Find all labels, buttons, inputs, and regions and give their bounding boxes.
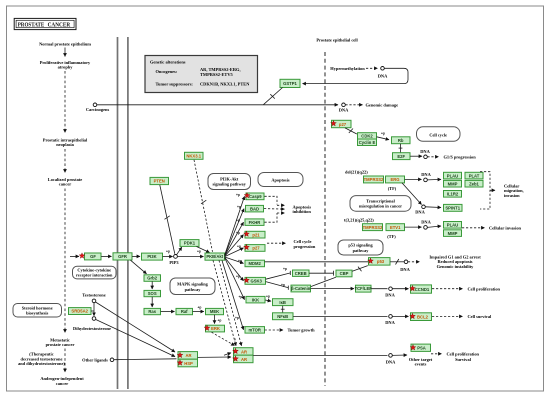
gene Rb [392,137,411,144]
svg-text:receptor interaction: receptor interaction [76,273,113,278]
wire dashed down [64,71,66,133]
svg-text:NKX3.1: NKX3.1 [186,153,201,158]
wire Raf to MEK [193,311,204,313]
gene FKHR [245,219,264,226]
wire DNA to PSA [392,354,407,356]
svg-text:BAD: BAD [250,206,259,211]
svg-text:AR: AR [241,349,247,354]
svg-text:Tumor suppressors:: Tumor suppressors: [156,81,194,86]
pathway box cell cycle [417,127,461,142]
svg-text:HSP: HSP [184,361,193,366]
gene AR b [233,355,253,363]
pathway box transcriptional misregulation [350,196,411,212]
svg-text:AR: AR [241,357,247,362]
wire dashed to DNA [366,67,378,69]
svg-text:Dihydrotestosterone: Dihydrotestosterone [73,326,111,331]
svg-text:+p: +p [237,245,241,249]
svg-text:pathway: pathway [185,287,202,292]
gene Cyclin E [358,139,377,146]
gene bCatenin [291,285,311,292]
wire p21/p27 dashed to cell cycle progression [267,242,286,244]
wire GSTP1 to carcinogen line with cross [264,88,283,105]
svg-text:t(3,21)(q25,q22): t(3,21)(q25,q22) [344,218,374,223]
svg-text:cancer: cancer [59,182,71,187]
svg-text:del(21)(q22): del(21)(q22) [345,169,368,174]
node DNA circle [342,103,346,107]
wire p27 to CDK2 with cross [345,128,357,134]
wire ETV1 to DNA [405,226,422,228]
node ligand circle [110,358,114,362]
svg-text:SPINT1: SPINT1 [445,206,460,211]
svg-text:Transcriptional: Transcriptional [366,198,395,203]
gene CBP [336,270,352,277]
gene mTOR [245,327,265,334]
gene CCND1 [410,285,432,293]
svg-text:+p: +p [166,250,170,254]
pathway box PI3K-Akt signaling pathway [208,174,251,190]
wire CREB to CBP tbar [309,272,333,274]
wire dashed to cellular invasion [462,227,485,229]
svg-text:CBP: CBP [340,271,349,276]
svg-text:MAPK signaling: MAPK signaling [177,281,209,286]
gene PLAT [465,172,483,179]
wire AKT to MDM2 [225,257,244,263]
svg-text:MMP: MMP [448,231,458,236]
wire CBP to p53 with cross [352,266,368,272]
wire CDK2 to Rb [377,137,389,140]
svg-text:Tumor growth: Tumor growth [288,328,316,333]
wire bracket arrow [490,189,495,191]
svg-text:Grb2: Grb2 [147,276,157,281]
svg-text:+p: +p [236,219,240,223]
gene p27 [244,244,265,251]
gene p53 [368,258,390,266]
svg-text:DNA: DNA [400,267,410,272]
cell membrane double line [118,37,128,389]
wire PTEN to PIP3 with cross [160,185,175,254]
gene PLAU [444,172,462,179]
wire AKT to p21 [225,235,244,257]
svg-text:Oncogenes:: Oncogenes: [156,69,178,74]
gene BCL2 [410,313,432,321]
wire DNA to SPINT1 [425,206,441,209]
svg-text:ERK: ERK [211,326,220,331]
wire ERK dashed to ARAR [212,332,235,345]
svg-text:Cyclin E: Cyclin E [359,140,376,145]
wire BCL2 dashed to cell survival [432,315,463,317]
gene NKX3.1 [185,152,204,159]
svg-text:IL1R2: IL1R2 [447,192,459,197]
svg-text:+p: +p [239,295,243,299]
node DNA circle [389,354,393,358]
svg-text:PKB/Akt: PKB/Akt [206,254,223,259]
wire AKT to FKHR [225,222,244,256]
svg-text:Prostate epithelial cell: Prostate epithelial cell [316,38,358,43]
svg-text:+p: +p [281,283,285,287]
svg-text:G1/S progression: G1/S progression [444,154,477,159]
wire arrow down [64,48,66,57]
gene Grb2 [144,275,161,282]
wire dashed to genomic damage [345,104,362,106]
wire ERG diagonal to SPINT1 DNA [402,183,422,205]
node DNA circle [389,315,393,319]
svg-text:PLAU: PLAU [447,173,458,178]
svg-text:PLAT: PLAT [469,173,480,178]
nuclear membrane dashed [324,52,326,386]
wire mTOR dashed to tumor growth [265,329,283,331]
svg-text:GFR: GFR [118,254,127,259]
svg-text:p21: p21 [252,232,260,237]
wire PI3K to PIP3 [163,256,173,258]
svg-text:TCF/LEF: TCF/LEF [355,286,373,291]
node DNA circle [424,226,428,230]
gene HSP [177,359,197,367]
svg-text:+p: +p [236,231,240,235]
wire DNA to BCL2 [392,315,408,317]
svg-text:DNA: DNA [385,320,395,325]
wire AKT to Casp9 [225,196,245,255]
svg-text:BCL2: BCL2 [417,314,429,319]
svg-text:(TF): (TF) [387,234,396,239]
svg-text:PROSTATE: PROSTATE [18,23,45,29]
gene IKK [246,296,265,303]
wire GFR to Grb2 [131,260,147,274]
gene E2F [393,153,411,160]
svg-text:CREB: CREB [295,271,307,276]
svg-text:CDKN1B, NKX3.1, PTEN: CDKN1B, NKX3.1, PTEN [200,81,250,86]
gene GFR [113,253,132,260]
svg-text:+p: +p [283,267,287,271]
gene BAD [246,205,264,212]
svg-text:+p: +p [266,295,270,299]
svg-text:Cell proliferation: Cell proliferation [447,352,480,357]
node DNA circle [381,67,385,71]
wire T to AR [96,302,176,352]
svg-text:p53 signaling: p53 signaling [348,243,373,248]
svg-text:TMPRSS2-ETV5: TMPRSS2-ETV5 [200,72,233,77]
svg-text:neoplasia: neoplasia [56,142,74,147]
svg-text:PTEN: PTEN [154,179,165,184]
gene AR c1 [177,352,197,360]
gene SPINT1 [444,204,463,211]
pathway box MAPK signaling pathway [170,278,215,295]
gene TMPRSS2 b [363,224,384,231]
svg-text:+p: +p [236,275,240,279]
svg-text:Carcinogens: Carcinogens [86,107,110,112]
svg-text:GSK3: GSK3 [250,279,262,284]
gene ERK [204,325,224,332]
wire PIP3 to PDK1 [177,247,182,255]
svg-text:NFκB: NFκB [277,314,288,319]
wire dashed down [64,349,66,373]
svg-text:DNA: DNA [421,220,431,225]
svg-text:Survival: Survival [455,357,472,362]
gene CREB [293,270,310,276]
svg-text:MEK: MEK [210,309,219,314]
svg-text:DNA: DNA [421,172,431,177]
gene Raf [176,308,193,314]
svg-text:atrophy: atrophy [58,65,74,70]
svg-text:p27: p27 [252,246,260,251]
gene IkB [273,299,294,306]
svg-text:events: events [415,362,427,367]
wire PSA dashed to proliferation [431,353,442,355]
svg-text:ETV1: ETV1 [390,225,401,230]
wire Casp9 dashed bracket [265,196,278,204]
svg-text:Apoptosis: Apoptosis [271,178,289,183]
svg-text:PIP3: PIP3 [169,260,179,265]
wire PIP3 to AKT [178,256,204,258]
node T circle [92,299,96,303]
pathway box apoptosis [258,173,303,187]
wire DNA to PLAU [427,178,441,181]
svg-text:TMPRSS2: TMPRSS2 [364,177,384,182]
wire Casp9 arrow [277,204,285,206]
svg-text:cancer: cancer [56,381,68,386]
gene CDK2 [358,133,377,139]
gene GF [79,253,101,260]
gene p27 nuclear [331,120,351,127]
svg-text:+p: +p [235,316,239,320]
svg-text:Other ligands: Other ligands [82,358,108,363]
wire AKT dashed to AR b [219,260,242,345]
svg-text:progression: progression [294,244,316,249]
wire E2F to DNA [410,155,422,157]
svg-text:p53: p53 [377,259,385,264]
svg-text:DNA: DNA [378,73,388,78]
svg-text:GF: GF [90,254,96,259]
wire PDK1 to AKT [197,247,210,253]
svg-text:GSTP1: GSTP1 [283,81,297,86]
gene PLAU b [444,222,462,229]
wire input arrow to GF [70,255,79,257]
wire Grb2 to SOS [151,281,153,289]
svg-text:Genetic alterations: Genetic alterations [150,60,186,65]
wire bCatenin to TCF [311,288,354,290]
wire FKHR arrow [277,212,285,214]
svg-text:prostate cancer: prostate cancer [46,342,75,347]
gene PDK1 [180,240,199,247]
wire T to DHT [93,303,95,316]
node DNA circle [424,178,428,182]
node DNA circle [404,260,408,264]
wire bracket migration [480,172,490,209]
node DNA circle [422,205,426,209]
wire ARHSP to ARAR [198,356,231,358]
wire dashed to G1/S [427,156,438,158]
svg-text:p27: p27 [339,122,347,127]
wire AKT to p27 [225,248,244,257]
wire DHT to AR [96,320,175,357]
wire IkB NFkB plus [282,306,284,313]
wire p53 to DNA with cross [390,261,404,263]
svg-text:SOS: SOS [148,291,157,296]
node DNA circle [389,287,393,291]
svg-text:+p: +p [237,205,241,209]
svg-text:invasion: invasion [504,193,520,198]
wire ligand to AR [114,358,177,361]
svg-text:(TF): (TF) [388,186,397,191]
svg-text:MMP: MMP [448,181,458,186]
gene SRD5A2 [69,308,92,315]
svg-text:Hypermethylation: Hypermethylation [330,66,365,71]
wire ERG to DNA [405,178,422,180]
wire AKT to IKK [225,258,245,300]
gene MMP b [444,230,462,237]
wire Rb E2F plus [400,144,402,153]
gene Zeb1 [465,180,483,187]
pathway box p53 signaling pathway [338,240,383,255]
svg-text:FKHR: FKHR [249,220,261,225]
svg-text:TMPRSS2: TMPRSS2 [363,225,383,230]
wire SRD5A2 tick [91,310,94,312]
wire MEK to ERK [214,315,216,324]
svg-text:DNA: DNA [385,293,395,298]
gene TCF/LEF [355,285,373,292]
svg-text:misregulation in cancer: misregulation in cancer [359,204,402,209]
wire GFR to PI3K [132,255,140,257]
gene PI3K [142,253,163,260]
svg-text:β-Catenin: β-Catenin [291,286,311,291]
svg-text:DNA: DNA [420,149,430,154]
svg-text:IκB: IκB [279,300,286,305]
wire IKK to IkB [265,300,271,301]
wire Ras to Raf [161,311,175,313]
svg-text:DNA: DNA [386,359,396,364]
gene AKT [205,253,225,260]
svg-text:CANCER: CANCER [48,23,71,29]
wire NKX3.1 dashed to AKT with cross [194,160,213,252]
svg-text:SRD5A2: SRD5A2 [71,309,88,314]
svg-text:Genomic instability: Genomic instability [437,264,475,269]
gene TMPRSS2 [364,176,385,183]
wire FKHR dashed bracket [265,213,278,222]
svg-text:+p: +p [381,132,385,136]
svg-text:Cell proliferation: Cell proliferation [468,286,501,291]
svg-text:CCND1: CCND1 [415,287,430,292]
svg-text:+p: +p [238,259,242,263]
svg-text:pathway: pathway [353,248,370,253]
svg-text:AR: AR [185,353,191,358]
svg-text:CDK2: CDK2 [361,134,373,139]
svg-text:?: ? [234,338,236,342]
svg-text:Ras: Ras [148,309,156,314]
wire dashed down [64,189,66,333]
svg-text:PI3K: PI3K [147,254,156,259]
gene MEK [206,308,224,314]
svg-text:ERG: ERG [390,177,399,182]
wire DNA to CCND1 [392,288,408,290]
wire AKT to mTOR [222,260,244,329]
svg-text:Testosterone: Testosterone [82,292,105,297]
svg-text:Genomic damage: Genomic damage [366,103,399,108]
wire TCF to DNA [371,288,387,290]
svg-text:IKK: IKK [252,297,259,302]
svg-text:Zeb1: Zeb1 [469,181,479,186]
gene PTEN [150,177,169,184]
wire GSK3 to CREB tbar [266,273,290,279]
svg-text:+p: +p [218,319,222,323]
wire bCatenin to CBP [311,277,336,286]
svg-text:Cell survival: Cell survival [468,314,493,319]
svg-text:DNA: DNA [415,210,425,215]
node DNA circle [424,155,428,159]
wire BAD dashed [264,208,285,211]
svg-text:inhibition: inhibition [293,209,312,214]
title box PROSTATE CANCER [14,18,76,29]
wire carcinogens to DNA [97,104,338,106]
svg-text:mTOR: mTOR [248,328,261,333]
svg-text:MDM2: MDM2 [249,261,262,266]
wire dashed down [64,149,66,173]
gene GSTP1 [280,79,300,87]
svg-text:+p: +p [197,249,201,253]
svg-text:Raf: Raf [181,309,188,314]
wire DNA to PLAU b [427,226,441,227]
node DHT circle [92,317,96,321]
wire MDM2 to p53 [265,261,368,263]
wire GF to GFR [101,255,111,257]
gene AR a [233,348,253,356]
svg-text:and dihydrotestosterone): and dihydrotestosterone) [18,361,65,366]
gene NFkB [273,313,294,320]
svg-text:E2F: E2F [397,154,405,159]
svg-text:biosynthesis: biosynthesis [26,310,49,315]
gene GSK3 [244,277,266,284]
wire dashed to impaired [408,261,420,263]
gene MDM2 [245,260,265,267]
gene ETV1 [386,224,405,231]
pathway box steroid hormone biosynthesis [13,304,62,318]
gene IL1R2 [444,191,462,198]
svg-text:Normal prostate epithelium: Normal prostate epithelium [39,41,91,46]
svg-text:Cellular invasion: Cellular invasion [489,226,522,231]
wire GSK3 to bCatenin tbar [266,282,288,288]
svg-text:PLAU: PLAU [447,223,458,228]
gene PSA [410,344,430,351]
svg-text:Cell cycle: Cell cycle [429,132,447,137]
gene Casp9 [244,193,264,200]
svg-text:Rb: Rb [398,138,404,143]
svg-text:PSA: PSA [417,346,426,351]
pathway box cytokine-cytokine receptor interaction [73,266,117,279]
svg-text:DNA: DNA [339,108,349,113]
wire NFkB to DNA [293,315,387,317]
node PIP3 [174,255,178,259]
gene ERG [386,176,405,183]
wire CCND1 dashed to cell proliferation [432,288,463,290]
wire hook to GSTP1 [303,68,409,83]
gene p21 [244,231,265,238]
svg-text:+p: +p [236,193,240,197]
wire ARAR to DNA [253,354,387,356]
gene MMP [444,180,462,187]
svg-text:signaling pathway: signaling pathway [213,182,247,187]
carcinogens [93,103,97,107]
wire AKT to BAD [225,209,244,256]
gene SOS [144,290,161,296]
wire SOS to Ras [151,297,153,307]
svg-text:Casp9: Casp9 [249,194,262,199]
svg-text:+p: +p [198,306,202,310]
wire AKT dashed to AR a [213,260,236,345]
svg-text:PDK1: PDK1 [184,241,196,246]
wire AKT to GSK3 [225,257,244,280]
gene Ras [144,308,161,314]
